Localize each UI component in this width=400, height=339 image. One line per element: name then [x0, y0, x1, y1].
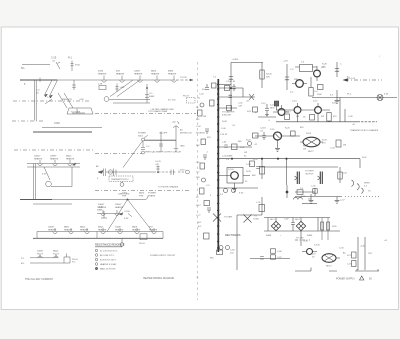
- wire vertical 311: [310, 77, 312, 88]
- wire heater pair row2: [27, 164, 80, 168]
- wire branch y188: [218, 187, 258, 189]
- resistor R-44: [339, 167, 341, 183]
- svg-text:TRANSISTOR ECO CHASSIS: TRANSISTOR ECO CHASSIS: [350, 129, 379, 132]
- svg-text:HEATER: HEATER: [34, 157, 43, 160]
- svg-text:THE CAL-RAY COMPANY: THE CAL-RAY COMPANY: [25, 278, 54, 281]
- svg-text:40MF: 40MF: [149, 96, 155, 98]
- wire AC line: [106, 171, 156, 173]
- wire y215: [237, 197, 262, 270]
- resistor R-1: [71, 61, 74, 72]
- coil small: [294, 197, 303, 199]
- plug box P-2: [64, 257, 70, 263]
- selenium rectifier SE-2: [296, 221, 305, 230]
- svg-text:TO CRT: TO CRT: [296, 238, 304, 240]
- svg-text:B+ 135 VOLTS DC: B+ 135 VOLTS DC: [100, 251, 118, 253]
- divider dash A: [13, 100, 90, 102]
- capacitor +30: [115, 84, 118, 93]
- resistor on y108: [227, 106, 232, 111]
- resistor R-9: [212, 83, 217, 88]
- wire drop x262: [261, 159, 263, 179]
- svg-text:HEATER: HEATER: [116, 72, 125, 75]
- svg-text:HEATER 6.3 VAC: HEATER 6.3 VAC: [100, 263, 117, 266]
- capacitor C line: [335, 62, 339, 77]
- terminal circle ladder: [200, 103, 204, 107]
- svg-text:C-160: C-160: [124, 211, 131, 213]
- svg-text:TO YOKE: TO YOKE: [71, 112, 81, 114]
- terminal circles pair: [219, 246, 223, 250]
- wire vertical pair row2: [34, 164, 36, 200]
- svg-text:6AQ5: 6AQ5: [53, 250, 59, 253]
- svg-text:HEATER: HEATER: [66, 157, 75, 160]
- svg-text:AC LINE 117 V: AC LINE 117 V: [100, 254, 115, 257]
- capacitor under rail: [256, 167, 260, 169]
- svg-text:TO DEFL: TO DEFL: [224, 217, 234, 219]
- svg-text:+ 117V +: + 117V +: [178, 170, 187, 172]
- svg-text:SPKR: SPKR: [364, 183, 370, 185]
- capacitor on y88: [232, 84, 235, 91]
- svg-text:1W: 1W: [303, 149, 306, 151]
- resistor R-18: [327, 113, 331, 122]
- heater V19: [54, 255, 59, 258]
- wire branch y147: [218, 146, 252, 148]
- wire branch y88: [218, 88, 243, 97]
- pilot lamp cluster: [187, 98, 196, 104]
- transformer box T-3: [300, 65, 313, 72]
- transistor X-2: [296, 80, 304, 88]
- resistor block4: [336, 140, 341, 147]
- svg-text:1W: 1W: [203, 116, 206, 118]
- line fuse circle: [108, 170, 112, 174]
- resistor R-16: [318, 85, 324, 90]
- capacitor line bypass: [114, 169, 117, 177]
- svg-text:TRANS: TRANS: [148, 194, 156, 197]
- wire second line: [33, 203, 72, 205]
- heater V17: [152, 228, 157, 234]
- wire crossing X2: [244, 215, 252, 223]
- wire vertical 231: [230, 63, 232, 111]
- resistor ladder9: [200, 188, 205, 194]
- svg-text:6CB6: 6CB6: [98, 71, 104, 73]
- wire heater sub row: [97, 213, 122, 215]
- resistor R-17: [285, 114, 290, 120]
- wire switch to interlock: [145, 139, 177, 141]
- resistor block3: [253, 133, 259, 138]
- wire heater string 1 dashed continuation: [176, 79, 191, 81]
- svg-text:1W: 1W: [321, 116, 324, 118]
- capacitor on switch line: [159, 140, 163, 152]
- wire y117: [258, 116, 276, 118]
- svg-text:6AV6: 6AV6: [64, 226, 70, 229]
- plug box P-1: [140, 234, 147, 240]
- svg-text:POWER: POWER: [138, 133, 146, 135]
- svg-text:6.3V: 6.3V: [239, 193, 244, 195]
- divider dash E: [95, 153, 142, 155]
- diode on y97: [249, 94, 254, 100]
- svg-text:HEATER: HEATER: [48, 228, 57, 231]
- svg-text:HEATER: HEATER: [64, 228, 73, 231]
- svg-text:2ND: 2ND: [294, 79, 299, 81]
- capacitor C-150: [159, 132, 162, 141]
- main vertical bus: [217, 79, 219, 252]
- svg-text:TO PIX: TO PIX: [180, 77, 187, 79]
- svg-text:VERTICAL SWEEP OUTPUT CIRCU: VERTICAL SWEEP OUTPUT CIRCUIT: [145, 151, 182, 154]
- svg-text:TO: TO: [254, 216, 257, 218]
- ground at interlock: [174, 149, 178, 152]
- svg-text:12AX7: 12AX7: [98, 203, 105, 206]
- svg-text:6BQ5: 6BQ5: [98, 227, 104, 229]
- svg-text:12BH7: 12BH7: [50, 156, 57, 158]
- svg-text:RECT: RECT: [308, 151, 314, 153]
- svg-text:HEATER: HEATER: [115, 228, 124, 231]
- svg-text:OFF: OFF: [163, 133, 168, 135]
- zigzag C-160: [128, 214, 132, 217]
- wire y203: [302, 203, 317, 205]
- svg-text:56K: 56K: [322, 66, 326, 68]
- wire heater string 1: [20, 79, 175, 81]
- legend circled 2: [95, 254, 98, 257]
- svg-text:OUTPUT: OUTPUT: [305, 174, 314, 176]
- wire row y136: [255, 135, 300, 137]
- wire COM line: [42, 127, 102, 129]
- loop terminal: [104, 97, 109, 102]
- svg-text:PILOT: PILOT: [37, 253, 44, 255]
- heater V7: [53, 160, 58, 166]
- resistor under rail: [250, 161, 255, 167]
- legend circled 3: [95, 258, 98, 261]
- svg-text:X-101: X-101: [270, 105, 276, 107]
- capacitor ladder4: [205, 129, 209, 134]
- svg-text:12AX7: 12AX7: [134, 70, 141, 73]
- transistor X-130: [307, 249, 313, 255]
- transistor X-15: [315, 107, 322, 114]
- heater V13: [85, 228, 90, 234]
- svg-text:HEATER: HEATER: [98, 228, 107, 231]
- heater V6: [38, 160, 43, 166]
- wire rail y122: [276, 121, 360, 123]
- svg-text:12X4: 12X4: [306, 133, 312, 135]
- resistor on 262: [259, 205, 265, 212]
- resistor R-19: [310, 115, 315, 121]
- heater V16: [135, 228, 140, 234]
- svg-text:12AX7: 12AX7: [115, 226, 122, 229]
- svg-text:C-25: C-25: [51, 57, 57, 60]
- svg-text:R-7 150: R-7 150: [168, 100, 176, 102]
- capacitor bank row: [250, 258, 290, 260]
- fuse block: [274, 101, 278, 106]
- left half text labels: [21, 57, 199, 282]
- svg-text:REG: REG: [270, 108, 275, 110]
- resistor R-120: [260, 70, 264, 79]
- wire diode stems: [268, 218, 318, 232]
- wire rect rail top: [264, 217, 330, 219]
- svg-text:HTR: HTR: [139, 195, 144, 197]
- svg-text:L-52 33: L-52 33: [220, 134, 228, 136]
- terminal ladder8: [202, 178, 206, 182]
- transistor X-16: [274, 132, 282, 140]
- wire rail end verticals: [37, 232, 163, 239]
- capacitor lower ladder: [207, 208, 211, 213]
- capacitor mid: [291, 218, 295, 232]
- heater V15: [118, 228, 123, 234]
- resistor block5: [217, 250, 223, 255]
- rectifier oval 6X4: [322, 254, 336, 263]
- wire rect rail bottom: [264, 230, 340, 232]
- wire vertical 262: [261, 63, 263, 89]
- heater V1: [102, 76, 107, 83]
- wire pilot line: [312, 97, 397, 99]
- svg-text:HEATER: HEATER: [132, 228, 141, 231]
- svg-text:HEATER: HEATER: [149, 228, 158, 231]
- legend circled 4: [95, 263, 98, 266]
- wire return horizontal: [109, 100, 150, 104]
- right half text labels: [196, 56, 389, 281]
- svg-text:PLUG: PLUG: [139, 243, 145, 245]
- svg-text:B BOOST: B BOOST: [222, 115, 232, 117]
- junction at x35: [39, 78, 41, 83]
- svg-text:C-108 .05: C-108 .05: [226, 81, 236, 83]
- capacitor on 231: [229, 77, 233, 80]
- svg-text:RESISTANCE READINGS: RESISTANCE READINGS: [95, 244, 125, 247]
- wire vertical 287: [286, 64, 288, 90]
- warning triangle: [360, 276, 364, 280]
- AC input arrow: [98, 171, 103, 174]
- wire to B+: [158, 171, 184, 173]
- wire branch y108: [218, 107, 237, 109]
- heater V18: [38, 255, 43, 258]
- heater V9: [101, 210, 106, 216]
- svg-text:POWER SUPPLY CIRCUIT: POWER SUPPLY CIRCUIT: [150, 255, 176, 257]
- wire bottom rail segs: [295, 268, 379, 272]
- svg-text:X-130: X-130: [314, 245, 320, 247]
- svg-text:TO VERT: TO VERT: [305, 171, 315, 173]
- capacitor below switch: [141, 141, 145, 150]
- svg-text:6AX4: 6AX4: [139, 192, 145, 195]
- triangle interconnect: [107, 200, 153, 232]
- dash to CRT: [295, 239, 310, 241]
- capacitor C-5: [145, 84, 149, 103]
- wire vertical pair from heater line: [35, 80, 37, 121]
- svg-text:470K: 470K: [75, 65, 80, 67]
- divider dash C: [12, 120, 45, 122]
- resistor right b: [352, 261, 357, 267]
- wire bus top-right branch: [218, 84, 231, 86]
- resistor 2.2K: [99, 86, 106, 90]
- power switch SW-1: [142, 138, 145, 141]
- svg-text:C-14 .05: C-14 .05: [347, 78, 356, 80]
- svg-text:20MF: 20MF: [97, 210, 103, 212]
- svg-text:12AX7: 12AX7: [37, 250, 44, 253]
- resistor on x262: [259, 167, 264, 175]
- svg-text:6BN6: 6BN6: [168, 71, 174, 73]
- resistor ladder7: [200, 163, 205, 169]
- ground audio: [335, 197, 340, 204]
- capacitor C-170 bracket: [101, 211, 107, 218]
- svg-text:22K: 22K: [196, 177, 200, 179]
- svg-text:+140V: +140V: [232, 59, 239, 61]
- yoke parallelogram: [67, 108, 93, 114]
- divider dash B: [95, 113, 196, 115]
- resistor block: [253, 107, 258, 112]
- capacitor on y97: [229, 95, 233, 97]
- svg-text:HEATER: HEATER: [168, 72, 177, 75]
- transistor X-14: [294, 107, 301, 114]
- wire light continuation: [52, 199, 145, 201]
- inductor L-4: [45, 99, 52, 104]
- wire plug row lower: [30, 262, 64, 264]
- heater V12: [69, 228, 74, 234]
- capacitor ladder6: [203, 155, 207, 160]
- arrow sub row: [120, 213, 123, 215]
- svg-text:AC: AC: [343, 252, 346, 255]
- svg-text:X-120: X-120: [228, 169, 234, 171]
- interlock plug: [173, 122, 180, 129]
- svg-text:TO FLYBACK XFMR: TO FLYBACK XFMR: [148, 110, 168, 113]
- arrow row2: [73, 163, 76, 165]
- capacitor C-140: [156, 166, 159, 173]
- svg-text:COM: COM: [54, 122, 60, 125]
- svg-text:VC: VC: [368, 191, 371, 193]
- svg-text:HEATER: HEATER: [98, 206, 107, 209]
- wire drop x286.5: [286, 159, 288, 185]
- heater V3: [138, 76, 143, 83]
- resistor right pair: [322, 218, 328, 241]
- svg-text:C-50 40MF: C-50 40MF: [222, 156, 233, 158]
- svg-text:6AQ5: 6AQ5: [80, 226, 86, 229]
- svg-text:LINE CORD: LINE CORD: [118, 194, 130, 196]
- svg-text:1W: 1W: [343, 145, 346, 147]
- wire bottom audio rail: [295, 196, 342, 198]
- transistor X-101: [278, 109, 285, 116]
- fuse circle a: [224, 189, 228, 193]
- svg-text:47K: 47K: [207, 137, 211, 139]
- resistor R-15: [309, 88, 313, 97]
- wire heater return S-curve: [110, 80, 140, 97]
- resistor right a: [352, 252, 357, 258]
- capacitor ladder1: [205, 84, 209, 90]
- svg-text:INTERLOCK: INTERLOCK: [180, 132, 193, 134]
- svg-text:12AX7: 12AX7: [48, 226, 55, 229]
- pilot lamp PL-1: [377, 95, 383, 101]
- svg-text:2W: 2W: [296, 116, 299, 118]
- svg-text:SW-1: SW-1: [138, 135, 144, 137]
- resistor block2: [291, 131, 296, 136]
- svg-text:6AU6: 6AU6: [151, 70, 157, 73]
- resistor on 315: [313, 189, 317, 194]
- svg-text:HEATER WIRING DIAGRAM: HEATER WIRING DIAGRAM: [143, 277, 174, 280]
- heater V2: [120, 76, 125, 83]
- svg-text:HEATER: HEATER: [134, 72, 143, 75]
- fuse circle: [120, 243, 124, 247]
- svg-text:AC: AC: [96, 165, 99, 168]
- wire top-left stub: [22, 64, 50, 66]
- svg-text:BIAS -18 VOLTS: BIAS -18 VOLTS: [100, 268, 116, 271]
- fold dash line: [197, 62, 199, 300]
- wire diagonal to AC input: [123, 141, 143, 168]
- wire diagonal run A: [45, 80, 58, 96]
- wire +140 top rail: [231, 62, 263, 64]
- svg-text:HEATER: HEATER: [115, 206, 124, 209]
- svg-text:AC: AC: [180, 129, 183, 132]
- svg-text:40MF: 40MF: [266, 235, 272, 237]
- capacitor C-25: [56, 62, 60, 69]
- resistor small pair: [297, 190, 303, 195]
- heater V4: [155, 76, 160, 83]
- svg-text:1W: 1W: [244, 152, 247, 154]
- wire heavy ground bus: [33, 131, 92, 133]
- heater V8: [68, 160, 73, 166]
- bus junction blobs: [217, 85, 220, 249]
- wire y192: [295, 188, 315, 196]
- svg-text:+30V: +30V: [120, 87, 126, 89]
- legend circled 5: [95, 267, 98, 270]
- svg-text:HEATER: HEATER: [151, 72, 160, 75]
- wire heavy top of lower section: [20, 199, 52, 201]
- svg-text:YOKE: YOKE: [253, 219, 259, 221]
- transistor X-120 boxed: [227, 168, 243, 184]
- legend circled 1: [95, 249, 98, 252]
- output transformer secondary: [320, 172, 322, 185]
- svg-text:RECT: RECT: [326, 266, 332, 268]
- svg-text:POWER SUPPLY: POWER SUPPLY: [336, 278, 355, 281]
- wire right rails: [358, 237, 365, 270]
- ground X-16: [275, 148, 280, 151]
- heater V5: [172, 76, 177, 83]
- fuse circle b: [232, 189, 236, 193]
- thermistor dashed box: [109, 176, 133, 182]
- resistor ladder5: [201, 139, 206, 145]
- svg-text:HEATER: HEATER: [98, 72, 107, 75]
- svg-text:6AQ5: 6AQ5: [66, 155, 72, 158]
- capacitor gnd leg: [265, 104, 269, 117]
- wire audio rail y167: [260, 166, 338, 168]
- capacitor on y147: [224, 145, 227, 147]
- resistor ladder3: [198, 110, 203, 116]
- svg-text:TO DAMPER: TO DAMPER: [222, 111, 235, 114]
- svg-text:60~: 60~: [21, 67, 26, 70]
- heater V11: [53, 228, 58, 234]
- svg-text:6.3V: 6.3V: [42, 174, 47, 176]
- capacitor leg: [262, 132, 266, 140]
- transistor X-1: [314, 70, 321, 77]
- fuse F-1: [120, 183, 124, 187]
- wire down from SE rail: [300, 231, 302, 246]
- svg-text:TO FILTER CHASSIS: TO FILTER CHASSIS: [158, 186, 179, 189]
- svg-text:PILOT: PILOT: [183, 96, 190, 98]
- circled terminal A: [186, 170, 190, 174]
- svg-text:R-1: R-1: [68, 57, 73, 60]
- svg-text:HTR: HTR: [122, 195, 127, 197]
- wire interlock vertical: [175, 125, 177, 148]
- output transformer primary: [297, 172, 299, 185]
- wire branch y97: [218, 96, 255, 98]
- wire row y110: [276, 109, 330, 111]
- terminal circle: [248, 142, 252, 146]
- svg-text:6.3V: 6.3V: [124, 218, 129, 220]
- wire diagonal run B: [58, 93, 73, 108]
- divider dash F: [95, 190, 190, 192]
- svg-text:12AU7: 12AU7: [115, 203, 122, 206]
- svg-text:6.3V: 6.3V: [384, 94, 389, 96]
- dash-dot takeoff: [345, 79, 382, 81]
- heater V10: [115, 210, 120, 216]
- rectifier tube 12X4: [303, 137, 320, 147]
- svg-text:6BK4 HTR: 6BK4 HTR: [62, 99, 72, 101]
- resistor on y147: [232, 144, 238, 150]
- wire heater rail main: [37, 231, 163, 233]
- speaker coil: [352, 180, 364, 194]
- svg-text:PILOT: PILOT: [53, 253, 60, 255]
- svg-text:POWER: POWER: [148, 193, 156, 195]
